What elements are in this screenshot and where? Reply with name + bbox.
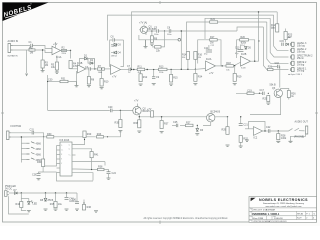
wire W1 drop xyxy=(276,12,278,24)
svg-text:/ 1: / 1 xyxy=(313,214,315,216)
wire IC3 left rail xyxy=(44,146,57,167)
wire C7 to R11 xyxy=(131,69,138,71)
svg-text:13:40:18: 13:40:18 xyxy=(274,218,283,220)
ground C41 xyxy=(75,209,79,210)
resistor R3 xyxy=(41,60,49,68)
svg-text:AUDIO IN: AUDIO IN xyxy=(8,40,19,43)
wire Q2 emitter to low bus xyxy=(139,114,227,117)
capacitor C25 xyxy=(173,121,178,127)
svg-text:C11: C11 xyxy=(204,47,209,50)
feedback rail left xyxy=(80,59,85,67)
feedback box rails xyxy=(110,40,113,67)
svg-text:1M log: 1M log xyxy=(297,63,305,66)
resistor R21 row5 xyxy=(268,66,274,71)
svg-text:Sommerkamp 41, 22395 Hamburg,: Sommerkamp 41, 22395 Hamburg, Germany xyxy=(263,202,305,205)
wire S1c xyxy=(21,153,26,155)
resistor R18 xyxy=(226,62,234,67)
resistor R24 on W4 xyxy=(210,18,218,23)
svg-text:C15: C15 xyxy=(280,40,285,43)
junction node4 xyxy=(147,69,148,70)
resistor R45 vert xyxy=(50,202,63,208)
svg-text:BC546 B: BC546 B xyxy=(211,111,221,114)
resistor R33 xyxy=(155,46,162,53)
wire R8 xyxy=(88,71,90,77)
wire dc sleeve return xyxy=(9,196,29,214)
svg-text:GUITAR IN: GUITAR IN xyxy=(7,55,18,58)
wire C9 xyxy=(153,70,155,77)
ground R9 xyxy=(150,44,154,45)
resistor R30 xyxy=(47,133,54,138)
ground R29 xyxy=(226,145,230,146)
capacitor C24 vert xyxy=(107,172,117,175)
wire fs drop2 xyxy=(43,137,45,166)
wire TP vertical xyxy=(180,31,182,69)
op-amp IC2B xyxy=(241,53,251,66)
pin P5 xyxy=(290,67,307,72)
resistor R27 horiz xyxy=(186,121,194,126)
svg-text:R18: R18 xyxy=(226,62,231,65)
lower bias wire xyxy=(48,81,60,83)
svg-text:1M: 1M xyxy=(210,42,213,45)
wire R16 xyxy=(194,59,196,69)
wire R40 xyxy=(84,138,86,140)
diode D2 xyxy=(90,59,94,64)
ground R45 xyxy=(54,209,58,210)
svg-text:C20: C20 xyxy=(108,106,113,109)
wire ref top xyxy=(83,200,85,204)
wire Q1 bottom xyxy=(145,33,147,35)
svg-text:R11: R11 xyxy=(138,65,143,68)
svg-text:R45: R45 xyxy=(50,203,55,206)
svg-text:OVERDRIVE 1 / ODR-1: OVERDRIVE 1 / ODR-1 xyxy=(252,212,280,216)
svg-text:R41: R41 xyxy=(94,153,99,156)
capacitor C6 top xyxy=(111,36,115,42)
wire C11 xyxy=(208,45,210,50)
svg-text:10u: 10u xyxy=(58,203,63,206)
resistor R29 vert xyxy=(222,127,230,135)
svg-text:IC2B: IC2B xyxy=(241,68,246,70)
svg-text:R38: R38 xyxy=(98,166,103,169)
svg-text:4066: 4066 xyxy=(36,153,42,156)
svg-text:R36: R36 xyxy=(133,122,138,125)
title block logo glyph xyxy=(251,198,256,201)
resistor R37 vert xyxy=(160,121,169,129)
wire jack top prong xyxy=(13,45,31,47)
wire C8 right xyxy=(171,30,237,32)
DC jack J4 xyxy=(5,191,10,197)
svg-text:R27: R27 xyxy=(186,121,191,124)
capacitor C16 xyxy=(275,62,280,68)
svg-text:R46: R46 xyxy=(87,206,92,209)
svg-text:R21: R21 xyxy=(268,66,273,69)
svg-text:V+: V+ xyxy=(69,155,71,157)
wires base network xyxy=(260,92,263,94)
wire opamp3 out xyxy=(121,69,129,71)
resistor R14 vert xyxy=(182,52,190,60)
wire row5 to pin xyxy=(273,69,289,71)
junction dots left rail xyxy=(258,40,259,41)
resistor R38 horiz xyxy=(98,166,105,171)
wire R5 top xyxy=(56,56,58,63)
wire C16 left xyxy=(271,66,278,68)
ground R36 xyxy=(137,131,141,132)
svg-text:R31: R31 xyxy=(61,78,66,81)
wire R27 xyxy=(180,124,186,126)
svg-text:FOOTSW: FOOTSW xyxy=(11,125,22,128)
wire C40 xyxy=(66,193,68,198)
resistor R23 xyxy=(284,29,293,43)
svg-text:220k: 220k xyxy=(159,72,163,74)
diode D7 xyxy=(14,189,18,194)
pin P4 xyxy=(290,61,307,66)
wire R43 out xyxy=(104,131,121,137)
ground LED xyxy=(27,211,31,212)
title block xyxy=(249,197,317,224)
svg-text:SH: A4: SH: A4 xyxy=(297,213,303,216)
op-amp IC1B xyxy=(77,62,86,73)
wires Q3 collector xyxy=(281,89,289,91)
wire S1b xyxy=(21,148,26,150)
resistor R42 above low bus xyxy=(147,108,154,117)
resistor R22 xyxy=(271,24,279,32)
capacitor C13 xyxy=(235,46,243,51)
capacitor C40 xyxy=(65,198,76,204)
svg-text:7-Dec-1998: 7-Dec-1998 xyxy=(252,218,264,220)
svg-text:R25: R25 xyxy=(263,98,268,101)
transistor Q4 xyxy=(207,114,215,122)
jack J2 switch contact xyxy=(289,128,305,131)
svg-text:Z5V6: Z5V6 xyxy=(48,199,54,202)
switch S1d xyxy=(27,158,42,162)
feedback wires diodes xyxy=(87,59,94,64)
ground R34 xyxy=(193,84,197,85)
capacitor C41 xyxy=(72,199,79,204)
wire R19 xyxy=(234,66,236,74)
wire R37 xyxy=(161,117,163,121)
diode D1 xyxy=(84,54,88,59)
wire S1a xyxy=(21,142,26,144)
ground R5 xyxy=(55,70,59,73)
wire R39 xyxy=(42,167,44,173)
svg-text:R14: R14 xyxy=(182,54,187,57)
svg-text:33k: 33k xyxy=(198,57,201,59)
resistor R20 xyxy=(240,36,249,45)
svg-text:1M log: 1M log xyxy=(297,70,305,73)
wire IC3 row4 to R38 xyxy=(76,168,98,171)
wire jack lower prong xyxy=(13,49,30,51)
wire R35 xyxy=(119,110,121,119)
zener D8 xyxy=(40,198,54,202)
svg-text:10k: 10k xyxy=(226,69,229,71)
capacitor C26 vert xyxy=(32,174,41,177)
feedback rails stage4 xyxy=(198,40,210,64)
resistor R19 vert xyxy=(233,74,242,82)
IC3 right pins xyxy=(72,145,76,173)
wire W5 bus xyxy=(237,27,263,31)
svg-text:R39: R39 xyxy=(37,161,42,164)
wire IC3 row3 xyxy=(76,161,106,163)
wire C26 xyxy=(39,172,44,174)
wire R28 xyxy=(277,131,279,134)
wire R44 down xyxy=(21,208,26,211)
arrow shield xyxy=(26,74,28,76)
svg-text:100n: 100n xyxy=(167,34,171,36)
wire LED xyxy=(28,199,30,202)
IC3 box xyxy=(60,142,72,176)
svg-text:R35: R35 xyxy=(115,122,120,125)
junction ref xyxy=(83,202,84,203)
resistor R12 vert xyxy=(139,74,148,82)
wire cap row drop xyxy=(161,31,165,47)
wire R34 xyxy=(194,69,196,73)
IC3 left pins xyxy=(57,146,61,173)
wire Q4 emitter xyxy=(203,122,211,126)
svg-text:C21: C21 xyxy=(243,124,248,127)
svg-text:820k: 820k xyxy=(241,42,247,45)
svg-text:C26: C26 xyxy=(32,174,37,177)
resistor R46 vert xyxy=(82,205,91,211)
resistor R43 xyxy=(97,133,104,138)
wire W1 bus xyxy=(132,12,278,70)
svg-text:1N914: 1N914 xyxy=(111,46,118,48)
svg-text:C19: C19 xyxy=(247,89,252,92)
wire fs lower xyxy=(11,136,21,138)
resistor R15 vert xyxy=(170,75,179,83)
svg-text:IC3 4013: IC3 4013 xyxy=(60,139,70,142)
wire R32 down xyxy=(240,142,242,146)
wire row3 vert xyxy=(104,162,106,166)
wire C20 to Q2 xyxy=(112,109,133,111)
wires stage5 fb xyxy=(239,45,241,50)
resistor R5 xyxy=(51,62,59,70)
wire C25 xyxy=(172,124,176,126)
wire jack sleeve loop xyxy=(291,134,306,141)
resistor R44 vert xyxy=(16,202,23,208)
wire R33 left xyxy=(152,46,155,48)
ground jack xyxy=(289,141,293,142)
svg-text:Kai F.: Kai F. xyxy=(297,217,302,219)
test point TP1 xyxy=(178,39,181,42)
wire opamp5 out xyxy=(251,12,259,61)
wire R3 top xyxy=(42,50,44,60)
svg-text:C17: C17 xyxy=(260,89,265,92)
resistor R28 vert xyxy=(277,134,287,140)
svg-text:IC2B: IC2B xyxy=(241,53,247,56)
wire Q1 top xyxy=(143,25,145,27)
ground R19 xyxy=(233,84,237,85)
wire W4 bus xyxy=(187,22,267,51)
resistor R35 vert xyxy=(115,120,123,128)
pin P1 xyxy=(290,42,307,47)
wire C31 right xyxy=(34,133,44,137)
svg-text:P: 1: P: 1 xyxy=(306,214,309,216)
switch S1c xyxy=(27,153,42,157)
wire Q3 base feed xyxy=(236,92,260,94)
wire R9 xyxy=(151,31,153,36)
svg-text:+7V (A): +7V (A) xyxy=(139,22,147,25)
wire R30 right xyxy=(54,136,96,138)
wire R36 xyxy=(138,117,140,120)
pin P2 xyxy=(290,48,307,53)
ground bias xyxy=(75,82,79,87)
diode D9 row1 xyxy=(286,43,289,46)
resistor R34 below path xyxy=(194,74,203,82)
svg-text:C31: C31 xyxy=(30,128,35,131)
wire IC3 q1 xyxy=(76,140,85,145)
wire jack sleeve drop xyxy=(26,50,28,74)
svg-text:1M: 1M xyxy=(45,64,48,67)
wire fs top xyxy=(11,132,32,134)
svg-text:+7V: +7V xyxy=(112,76,117,79)
transistor Q1 xyxy=(140,26,156,34)
svg-text:R13: R13 xyxy=(159,65,164,68)
svg-text:R29: R29 xyxy=(222,129,227,132)
svg-text:R10: R10 xyxy=(104,81,109,84)
wire W5 drop xyxy=(263,27,267,70)
svg-text:C24: C24 xyxy=(112,172,117,175)
op-amp IC1A xyxy=(52,42,62,59)
ground R12 xyxy=(139,84,143,85)
svg-text:4066: 4066 xyxy=(36,148,42,151)
svg-text:4066: 4066 xyxy=(36,143,42,146)
wire C5-C8 xyxy=(158,30,168,32)
wire W2 drop xyxy=(274,15,289,50)
ground C26 xyxy=(37,179,41,180)
svg-text:33k: 33k xyxy=(182,57,185,59)
wire IC3 bottom loop xyxy=(57,173,94,182)
svg-text:1M: 1M xyxy=(30,51,33,54)
wire IC3 bottom row xyxy=(76,173,94,181)
wire W3 drop xyxy=(270,18,288,57)
wire opamp6 out xyxy=(263,130,268,132)
capacitor C9 vert xyxy=(152,76,160,79)
wire LED top xyxy=(21,198,29,200)
wire R41 down xyxy=(91,158,93,170)
wire fs sleeve drop xyxy=(20,137,22,163)
svg-text:C25: C25 xyxy=(173,121,178,124)
ground R3 xyxy=(41,68,45,72)
wire opamp6 in xyxy=(245,128,254,130)
wire R4 to opamp2 xyxy=(71,68,78,70)
capacitor C8 xyxy=(167,26,171,32)
wire dc to D7 xyxy=(9,192,14,194)
switch S1b xyxy=(27,147,42,151)
resistor R17 xyxy=(210,36,218,45)
svg-text:4: 4 xyxy=(313,217,314,219)
svg-text:R12: R12 xyxy=(143,76,148,79)
svg-text:100k: 100k xyxy=(281,137,287,140)
junction node3 xyxy=(133,69,134,70)
resistor R10 xyxy=(100,79,109,87)
resistor R41 vert xyxy=(90,152,99,158)
ground ref xyxy=(94,211,98,212)
svg-text:C22: C22 xyxy=(266,126,271,129)
svg-text:220k: 220k xyxy=(62,53,66,55)
svg-text:R34: R34 xyxy=(198,76,203,79)
junction dots pwr xyxy=(21,192,22,193)
wire R46 xyxy=(83,203,85,205)
svg-text:R19: R19 xyxy=(237,76,242,79)
resistor R39 vert xyxy=(37,159,45,167)
resistor R40 vert xyxy=(83,131,92,138)
ground R8 xyxy=(87,86,91,87)
diode D6 vert xyxy=(196,129,204,133)
base network C17 xyxy=(260,89,265,95)
svg-text:■ 4-pin CON 1: ■ 4-pin CON 1 xyxy=(289,73,303,76)
svg-text:C:\PROTEL\SCHEMATIC\ODR1-246.S: C:\PROTEL\SCHEMATIC\ODR1-246.S01 xyxy=(252,220,287,223)
ground C24 xyxy=(107,178,111,179)
wire R26 bottom stub xyxy=(288,98,290,100)
svg-text:+7V: +7V xyxy=(147,108,152,111)
svg-text:CIRCUIT DIAGRAM: CIRCUIT DIAGRAM xyxy=(252,209,275,212)
svg-text:R43: R43 xyxy=(97,133,102,136)
wire C1 to opamp xyxy=(32,46,52,49)
wire mid bus xyxy=(48,109,110,111)
svg-text:R44: R44 xyxy=(16,203,21,206)
svg-text:9V DC: 9V DC xyxy=(5,188,12,191)
wire R29 xyxy=(227,117,229,127)
resistor R8 xyxy=(87,77,94,85)
resistor R9 vert xyxy=(150,36,157,43)
capacitor C15 row1 xyxy=(280,40,285,46)
svg-text:NOBELS ELECTRONICS: NOBELS ELECTRONICS xyxy=(259,198,308,202)
ground R35 xyxy=(118,131,122,132)
wire R38 right xyxy=(104,170,109,172)
resistor R7 xyxy=(98,65,105,70)
capacitor C7 xyxy=(127,65,131,71)
op-amp IC2A xyxy=(206,58,216,75)
svg-text:25k lin: 25k lin xyxy=(297,57,305,60)
resistor R13 xyxy=(159,65,168,70)
wire opamp4 out xyxy=(216,65,227,67)
wire R39 to IC left xyxy=(43,171,56,173)
svg-text:R24: R24 xyxy=(211,18,216,21)
junction node5 xyxy=(120,110,121,111)
svg-text:CL: CL xyxy=(61,150,63,152)
ground R25 xyxy=(266,103,270,104)
IC3 pin texts xyxy=(61,144,71,165)
svg-text:C13: C13 xyxy=(235,46,240,49)
svg-text:C41: C41 xyxy=(72,199,77,202)
resistor R26 vert xyxy=(287,91,296,99)
wire Q2 top xyxy=(137,104,139,107)
svg-text:IC2: IC2 xyxy=(254,137,258,140)
svg-text:C16: C16 xyxy=(275,62,280,65)
wire R10 xyxy=(101,69,103,79)
svg-text:IC2A: IC2A xyxy=(206,58,212,61)
jack J3 xyxy=(7,131,12,140)
wire R45 xyxy=(55,193,57,202)
svg-text:+7V: +7V xyxy=(134,100,139,103)
svg-text:100k: 100k xyxy=(98,72,102,74)
svg-text:LED: LED xyxy=(33,203,38,206)
ground R28 xyxy=(276,141,280,142)
LED LD1 xyxy=(28,201,38,206)
op-amp IC1C xyxy=(111,65,121,79)
capacitor C31 xyxy=(30,128,35,134)
ground D8 xyxy=(44,209,48,210)
resistor R1 xyxy=(29,46,35,54)
junction node1 xyxy=(70,50,71,51)
svg-text:2: 2 xyxy=(306,217,307,219)
svg-text:10k log: 10k log xyxy=(297,50,305,53)
wire S1d xyxy=(21,158,26,160)
wire R11 to R13 xyxy=(145,69,159,71)
NOBELS logo xyxy=(2,2,48,21)
switch S1a xyxy=(27,142,42,146)
wire node2 fb up xyxy=(94,59,96,69)
wire pwr drop1 xyxy=(20,193,22,202)
